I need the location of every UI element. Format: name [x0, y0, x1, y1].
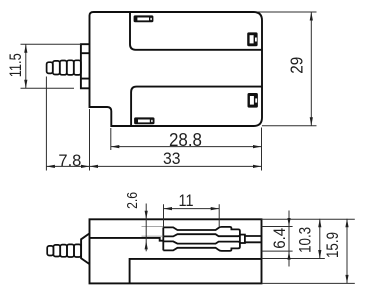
28.8 extension line: [110, 128, 112, 150]
nozzle flange (top view): [81, 44, 90, 88]
slot lower edge line: [131, 87, 262, 126]
svg-text:11.5: 11.5: [6, 53, 25, 77]
right side extension lines: [262, 219, 355, 283]
6.4 dimension line: [288, 211, 290, 267]
clip tab T4 (right lower): [248, 93, 258, 108]
11.5 arrows: [24, 44, 27, 53]
svg-text:2.6: 2.6: [124, 192, 141, 209]
barb ridge tip (side view): [47, 246, 53, 256]
svg-text:28.8: 28.8: [169, 130, 202, 150]
7.8 arrows: [46, 165, 55, 168]
slot upper edge line: [130, 12, 262, 50]
svg-text:29: 29: [287, 57, 307, 74]
barb ridge tip (top view): [47, 62, 53, 73]
6.4 arrows (outside): [287, 218, 290, 227]
15.9 arrows (inside): [345, 219, 348, 228]
11.5 dimension line: [25, 44, 27, 88]
terminal slot lines: [245, 236, 262, 242]
svg-text:6.4: 6.4: [270, 228, 289, 249]
10.3 arrows (inside): [318, 219, 321, 228]
11 dimension line: [164, 208, 220, 210]
33 arrows: [90, 165, 99, 168]
body outline (side view): [90, 219, 262, 283]
svg-text:11: 11: [179, 191, 194, 210]
clip tab T2 (bottom): [134, 117, 154, 124]
barb ridge 1 (side view): [53, 245, 60, 257]
svg-text:15.9: 15.9: [323, 232, 342, 258]
28.8 dimension line: [111, 146, 262, 148]
barb ridge 3 (top view): [67, 60, 74, 75]
11.5 extension lines: [21, 44, 81, 88]
clip tab T3 (right upper): [247, 32, 257, 46]
10.3 dimension line: [319, 219, 321, 259]
nozzle flange (side view): [81, 233, 89, 264]
11 arrows: [164, 207, 173, 210]
flange division lines: [81, 53, 90, 78]
33 dimension line: [90, 165, 262, 167]
barb ridge 4 (side view): [74, 244, 81, 257]
seam line: [90, 238, 164, 241]
terminal 1 (upper blade): [163, 227, 240, 237]
svg-text:10.3: 10.3: [296, 227, 315, 253]
29 dimension line: [310, 12, 312, 126]
7.8 dimension line: [46, 165, 89, 167]
barb ridge 2 (top view): [60, 61, 67, 75]
base plate line: [130, 259, 262, 284]
barb ridge 4 (top view): [74, 60, 81, 75]
svg-text:33: 33: [163, 149, 181, 168]
barb ridge 1 (top view): [53, 61, 60, 75]
terminal carrier front edge: [162, 227, 164, 250]
33 extension lines: [90, 109, 262, 171]
barb ridge 3 (side view): [67, 244, 74, 257]
29 extension lines: [258, 12, 317, 126]
2.6 dimension line: [145, 204, 147, 252]
terminal 2 (lower blade): [163, 241, 240, 251]
29 arrows: [310, 12, 313, 21]
barb ridge 2 (side view): [60, 245, 67, 257]
28.8 arrows: [111, 145, 120, 148]
terminal centre block: [240, 235, 245, 243]
2.6 faint reference lines: [142, 227, 164, 237]
7.8 extension line: [45, 77, 47, 171]
15.9 dimension line: [346, 219, 348, 284]
2.6 arrows: [145, 211, 148, 220]
clip tab T1 (top): [134, 15, 154, 22]
svg-text:7.8: 7.8: [58, 151, 81, 170]
body outline (top view): [90, 12, 263, 126]
11 extension lines: [164, 204, 220, 227]
